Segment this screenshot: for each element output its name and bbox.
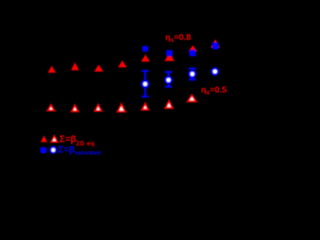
svg-text:ηs=0.8: ηs=0.8 xyxy=(165,32,191,44)
svg-text:ηs=0.5: ηs=0.5 xyxy=(201,85,227,97)
